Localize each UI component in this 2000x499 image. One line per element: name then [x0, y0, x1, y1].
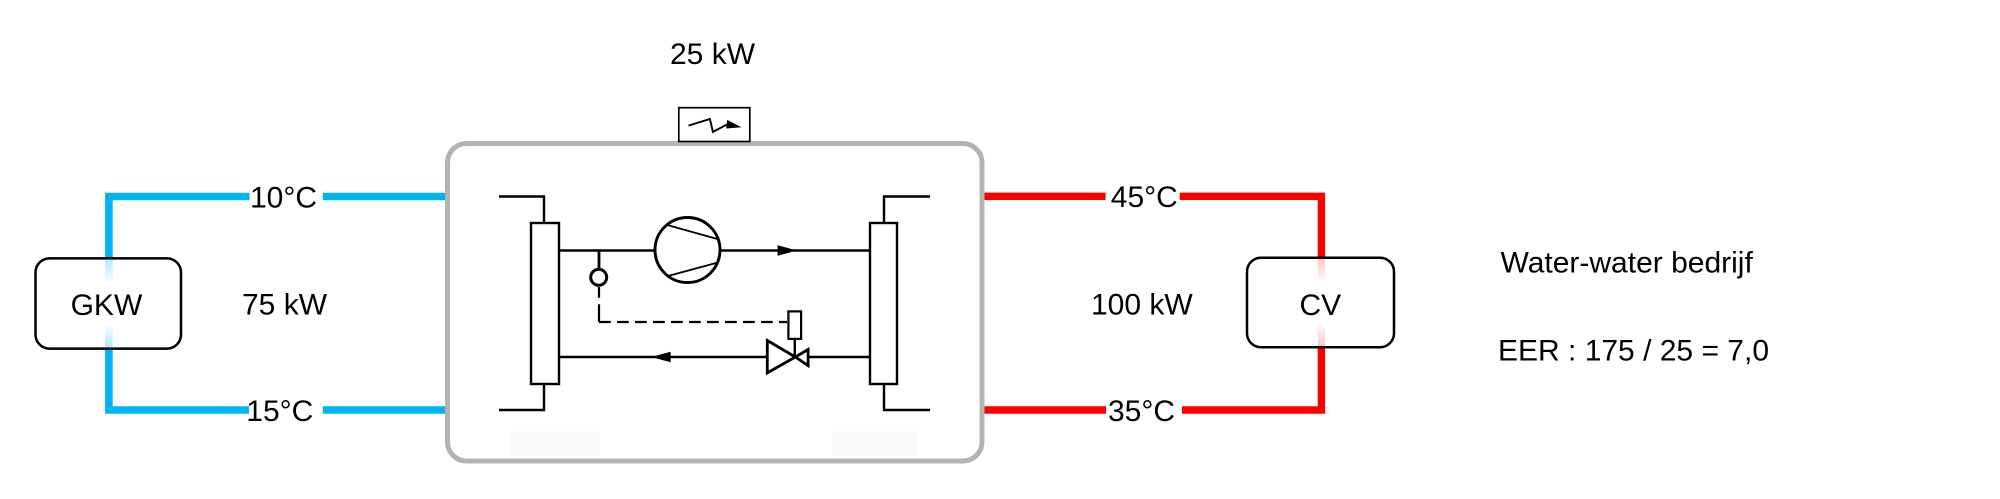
- wire: red heating loop right (45°C supply / 35°C return): [1180, 196, 1322, 410]
- svg-text:100 kW: 100 kW: [1091, 289, 1193, 322]
- arrow: flow direction on suction line (left): [651, 352, 671, 363]
- svg-text:15°C: 15°C: [246, 395, 313, 428]
- svg-text:GKW: GKW: [71, 289, 143, 322]
- wire: red 45°C pipe segment from heat pump: [984, 193, 1106, 200]
- wire: blue 10°C pipe segment to heat pump: [323, 193, 446, 201]
- svg-text:45°C: 45°C: [1111, 181, 1178, 214]
- wire: refrigerant liquid line (bottom, right HX to valve): [810, 356, 871, 358]
- faint pipe bleed inside CV box top: [1318, 259, 1325, 283]
- faint label placeholder under left heat exchanger: [510, 431, 600, 456]
- sensor bulb (circle): [591, 269, 607, 285]
- lightning arrow symbol: [689, 119, 728, 132]
- wire: red 35°C pipe segment from heat pump: [984, 406, 1106, 413]
- wire: blue 15°C pipe segment to heat pump: [323, 406, 446, 414]
- faint pipe bleed inside GKW box bottom: [105, 323, 113, 347]
- arrow: flow direction on discharge line (right): [778, 245, 797, 256]
- wire: dashed control line, vertical run from sensor: [598, 287, 600, 322]
- wire: refrigerant suction line (bottom, valve to left HX): [559, 356, 766, 358]
- svg-text:CV: CV: [1300, 289, 1342, 322]
- svg-text:35°C: 35°C: [1108, 395, 1175, 428]
- svg-text:Water-water bedrijf: Water-water bedrijf: [1501, 246, 1754, 279]
- wire: blue chilled-water loop left (10°C supply / 15°C return): [109, 197, 250, 411]
- GKW source box: [36, 258, 182, 348]
- svg-text:10°C: 10°C: [250, 181, 317, 214]
- svg-text:25 kW: 25 kW: [670, 38, 756, 71]
- faint label placeholder under right heat exchanger: [832, 431, 919, 456]
- heat exchanger HX1 (evaporator, left): [531, 223, 559, 384]
- wire: evaporator top stub (left): [499, 197, 544, 224]
- heat pump enclosure box: [448, 144, 983, 462]
- sensor tap line: [598, 251, 601, 271]
- wire: condenser top stub (right): [884, 197, 930, 224]
- svg-text:75 kW: 75 kW: [242, 289, 328, 322]
- wire: evaporator bottom stub (left): [499, 384, 544, 410]
- expansion valve stem: [794, 339, 796, 357]
- wire: dashed control line, horizontal run to expansion valve actuator: [599, 321, 787, 323]
- electrical input box with lightning arrow (25 kW): [679, 108, 750, 142]
- svg-text:EER : 175 / 25 = 7,0: EER : 175 / 25 = 7,0: [1498, 334, 1769, 367]
- heat exchanger HX2 (condenser, right): [870, 223, 897, 384]
- faint pipe bleed inside GKW box top: [105, 260, 113, 284]
- faint pipe bleed inside CV box bottom: [1318, 322, 1325, 346]
- wire: refrigerant discharge line (top, left HX to right HX): [559, 249, 870, 251]
- CV sink box: [1247, 258, 1394, 348]
- expansion valve body (asymmetric bowtie): [767, 341, 795, 373]
- compressor (circle with converging lines): [655, 218, 720, 283]
- wire: condenser bottom stub (right): [884, 384, 930, 410]
- expansion valve actuator (rectangle): [788, 311, 801, 339]
